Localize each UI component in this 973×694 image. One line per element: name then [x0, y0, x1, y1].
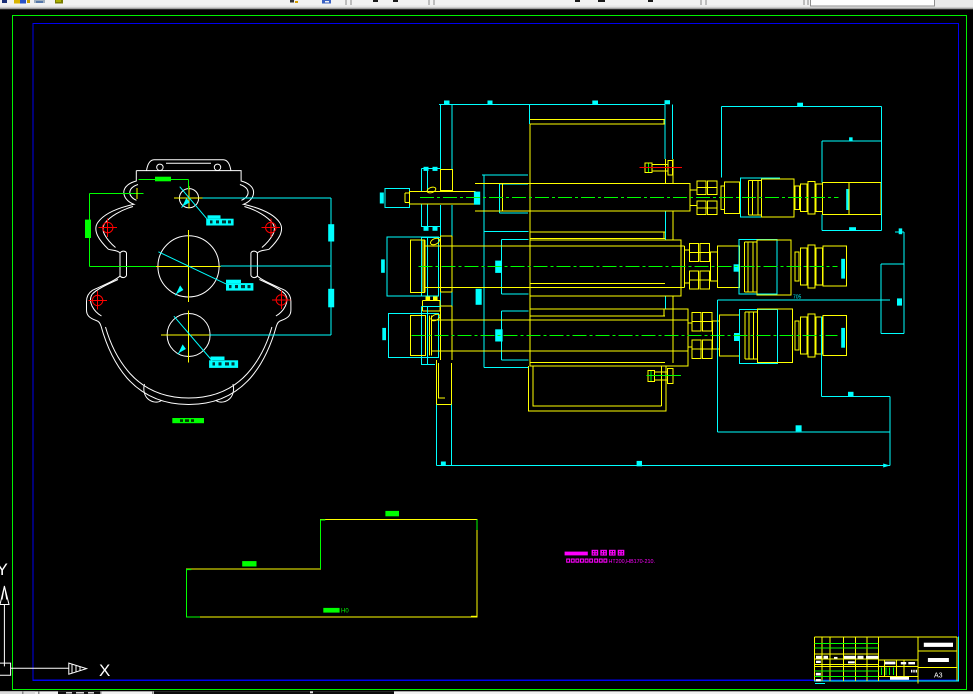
- tech requirements magenta bar: [565, 552, 588, 556]
- green dimension: centre height: [90, 193, 144, 195]
- S2 large cylinder: [757, 240, 791, 295]
- step profile outline yellow/green: [186, 519, 477, 617]
- S3 right bearing: [692, 312, 701, 330]
- S3 shaft body lines: [431, 319, 688, 321]
- S3 bearing tick: [495, 329, 502, 341]
- left wall flange (shaft3) yellow: [439, 306, 441, 360]
- S2 shaft body lines: [425, 245, 684, 247]
- hub step: [475, 182, 503, 184]
- S2 collar: [744, 242, 746, 292]
- tick: [897, 298, 902, 305]
- chain dim text tick 2: [328, 289, 334, 308]
- internal web verticals: [483, 175, 485, 368]
- dim D4 box right: [820, 316, 822, 396]
- bottom status sliver: [0, 691, 973, 694]
- S1 bearing cap left: [422, 169, 441, 227]
- middle section rows: [878, 659, 918, 661]
- dim text tick: [849, 227, 856, 231]
- S3 bearing cap left: [422, 307, 441, 365]
- S1 bearing tick: [474, 192, 480, 205]
- svg-text:705: 705: [793, 295, 802, 301]
- S3 coupling envelope: [389, 313, 439, 357]
- tick: [848, 392, 854, 397]
- S1 step ring: [795, 186, 800, 210]
- step dim text left: [242, 561, 256, 566]
- title grid columns: [821, 637, 823, 681]
- S2 ring stack: [801, 248, 807, 285]
- housing inner wall lines: [91, 185, 287, 399]
- UCS X axis arrowhead: [69, 663, 87, 674]
- svg-text:Y: Y: [0, 560, 8, 579]
- bore B1 top circle: [179, 189, 198, 208]
- cap bolt tick: [424, 167, 429, 171]
- centerline crosshair B2: [155, 265, 221, 267]
- tech requirements title blobs: [592, 550, 599, 556]
- bore B3 bottom circle: [167, 314, 210, 357]
- drain bolt green centreline: [647, 375, 681, 377]
- S1 shaft extension end: [849, 182, 881, 214]
- web bottom: [484, 367, 529, 369]
- S1 large cylinder: [762, 179, 794, 217]
- bearing bore s1 top: [500, 183, 528, 185]
- housing top hump: [147, 160, 231, 171]
- S1 coupling envelope: [385, 189, 410, 208]
- toolbar strip: [0, 0, 973, 6]
- S2 coupling tick: [381, 259, 385, 272]
- S3 neck: [688, 322, 692, 324]
- S3 large cylinder: [758, 309, 793, 363]
- S1 right bearing: [697, 181, 706, 194]
- bolt hole H2: [266, 222, 276, 232]
- title grid rows (left table): [815, 653, 879, 655]
- bearing bore s1 bottom: [500, 212, 528, 214]
- S2 bearing mid tick: [495, 261, 501, 273]
- toolbar combo field: [810, 0, 935, 7]
- yellow ext tick: [136, 188, 138, 199]
- svg-text:HT200,HB170-210.: HT200,HB170-210.: [609, 559, 655, 565]
- bearing bore box s2: [500, 240, 502, 295]
- web h1: [482, 174, 528, 176]
- green dim text vertical: [85, 220, 91, 238]
- S3 end journal: [823, 315, 846, 355]
- title top yellow: [815, 636, 958, 638]
- S1 hub/pinion: [503, 183, 691, 211]
- dim D3: [822, 230, 882, 232]
- tick: [665, 100, 671, 104]
- cyan centre-distance chain (left view): [203, 197, 332, 199]
- green label under view: [172, 418, 204, 423]
- S2 step: [710, 252, 717, 281]
- gear block left vertical: [529, 124, 531, 366]
- right centre-distance chain: [895, 231, 904, 233]
- S1 neck: [690, 189, 697, 191]
- S1 seal ellipse: [426, 186, 436, 194]
- S2 neck: [685, 249, 690, 251]
- left wall flange (shaft1) yellow: [440, 169, 452, 190]
- tick: [796, 425, 802, 431]
- green dimension: top width: [138, 179, 188, 181]
- S3 step: [713, 321, 720, 349]
- dim D7 overall bottom: [437, 465, 891, 467]
- S3 collar: [744, 312, 746, 359]
- centerline crosshair B3: [161, 334, 210, 336]
- leader 1 + label (top bore): [180, 187, 207, 219]
- oil pan: [529, 366, 667, 411]
- svg-text:H0: H0: [341, 609, 349, 615]
- S3 step ring: [795, 321, 799, 350]
- S2 shaft stub: [411, 240, 425, 293]
- bolt hole H3: [92, 295, 102, 305]
- S1 cyan sleeve box: [740, 178, 780, 217]
- dim text tick: [849, 137, 853, 141]
- chain dim text tick 1: [328, 224, 334, 241]
- gear block rim lines: [530, 119, 665, 121]
- dim text tick: [797, 103, 803, 107]
- leader 3 + label (bottom bore): [174, 316, 212, 360]
- green verticals small cells: [881, 668, 883, 676]
- dim D5 mid bottom: [718, 431, 891, 433]
- S1 centreline: [420, 197, 839, 199]
- left wall flange (shaft2) yellow: [439, 236, 441, 292]
- right section rows: [918, 650, 957, 652]
- S3 seal ellipse: [430, 313, 441, 322]
- dim D2 end length: [822, 140, 882, 142]
- green dim text: [155, 177, 171, 182]
- bolt hole H1: [103, 222, 113, 232]
- S1 ring stack: [801, 184, 807, 211]
- leader 2 + label (middle bore): [158, 252, 226, 284]
- housing top lug ears: [157, 164, 163, 170]
- S2 gear rect: [530, 240, 681, 296]
- drain bolt (bottom): [648, 369, 673, 384]
- vent bolt (top right): [645, 161, 672, 176]
- tick: [441, 462, 446, 466]
- gear2 rims: [530, 231, 665, 233]
- S1 spacer: [721, 186, 725, 210]
- S3 key tick end: [841, 328, 845, 348]
- yellow tick below title: [917, 681, 919, 683]
- S2 cap bolts bottom: [423, 301, 440, 311]
- vent bolt red centreline: [640, 167, 683, 169]
- S2 coupling envelope: [387, 237, 439, 296]
- housing end view outline: [87, 171, 291, 405]
- S2 right bearing: [690, 244, 699, 262]
- cap bolt tick: [433, 167, 438, 171]
- S2 sleeve cylinder: [718, 246, 740, 288]
- UCS origin box: [0, 663, 69, 675]
- tech requirements body line: [566, 559, 570, 563]
- dim D1 overall shaft1 length: [722, 106, 882, 108]
- left wall verticals: [439, 104, 441, 169]
- S2 centreline: [419, 265, 838, 267]
- S2 cyan sleeve box: [739, 239, 777, 294]
- gear2 bottom rim: [530, 282, 665, 284]
- web tick between S1S2: [476, 289, 482, 305]
- cyan lower base second line: [815, 682, 825, 684]
- gear3 rims: [530, 308, 665, 310]
- green rows: [815, 642, 879, 644]
- housing top line: [439, 103, 665, 105]
- S2 key tick end: [841, 259, 845, 279]
- title block cyan right/bottom edge: [957, 637, 959, 681]
- tick: [592, 101, 598, 105]
- toolbar icon fragments: [2, 0, 7, 3]
- gear top vertical cyan: [528, 104, 530, 124]
- right wall top: [664, 104, 666, 159]
- svg-text:X: X: [99, 661, 110, 680]
- S2 end journal: [823, 246, 846, 286]
- right wall segments yellow: [665, 159, 667, 183]
- S3 shaft stub: [411, 316, 426, 356]
- S3 gear rect: [530, 309, 688, 366]
- S2 seal ellipse: [429, 237, 440, 246]
- S1 sleeve cylinder: [725, 182, 740, 213]
- centerline crosshair B1: [174, 197, 203, 199]
- S3 centreline: [412, 334, 838, 336]
- housing foot pads: [144, 384, 234, 402]
- S3 key tick: [734, 333, 739, 341]
- coupling end tick: [380, 193, 384, 204]
- S2 step ring: [795, 252, 799, 281]
- bearing bore box s3: [500, 311, 502, 360]
- tick: [637, 461, 642, 466]
- tick: [899, 228, 903, 234]
- title left yellow: [814, 637, 816, 681]
- step dim text bottom: [323, 608, 339, 613]
- UCS Y axis arrow: [0, 586, 9, 666]
- web h2: [484, 231, 529, 233]
- svg-text:A3: A3: [934, 673, 943, 680]
- S1 shaft stub: [410, 192, 476, 205]
- S1 key section tick: [846, 189, 849, 210]
- white text placeholders: [924, 643, 953, 647]
- S1 collar: [748, 181, 750, 216]
- housing foot: [437, 360, 452, 404]
- S2 key tick: [734, 264, 739, 271]
- S2 bearing cap left: [422, 237, 441, 295]
- S3 ring stack: [801, 317, 807, 354]
- S3 sleeve cylinder: [720, 315, 740, 356]
- tick: [444, 101, 450, 105]
- bore B2 middle circle: [158, 236, 219, 297]
- S3 cyan sleeve box: [740, 310, 778, 364]
- dim D6 s2 length: [718, 299, 891, 301]
- S1 end journal: [823, 182, 850, 214]
- S3 coupling tick: [382, 328, 386, 340]
- bolt hole H4: [276, 295, 286, 305]
- tick: [488, 101, 493, 105]
- step dim text top: [385, 511, 399, 516]
